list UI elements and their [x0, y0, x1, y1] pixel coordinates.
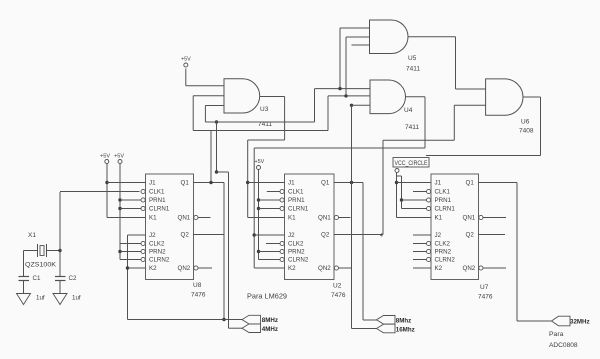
wire 16MHz horizontal — [352, 328, 378, 330]
svg-text:U6: U6 — [521, 119, 530, 126]
svg-text:U2: U2 — [333, 283, 342, 290]
wire J1 of U8 — [107, 182, 146, 184]
svg-text:Q2: Q2 — [466, 232, 475, 239]
svg-text:PRN2: PRN2 — [435, 249, 452, 256]
crystal X1 right plate — [46, 244, 48, 257]
net label VCC_CIRCLE box — [393, 158, 429, 168]
wire U5 output down — [455, 37, 457, 89]
wire Q2 of U8 — [194, 234, 225, 236]
node U4 input2 junction — [344, 94, 347, 97]
svg-text:ADC0808: ADC0808 — [549, 342, 578, 349]
svg-text:Q1: Q1 — [321, 180, 330, 187]
wire U5 input2 — [346, 36, 370, 38]
wire J2 of U8 — [128, 234, 146, 236]
flip-flop U8 7476 body — [146, 174, 194, 280]
svg-text:U4: U4 — [404, 107, 413, 114]
wire K1 of U8 — [107, 217, 146, 219]
wire U3 output to U2 J-K rail — [248, 139, 285, 141]
wire QN2 stub U8 — [198, 267, 212, 269]
wire QN1 stub U2 — [339, 217, 351, 219]
wire VCC rail2 stub — [397, 175, 402, 177]
wire U5-U4 input1 vertical — [339, 28, 341, 89]
wire J1 of U7 — [397, 182, 432, 184]
AND gate U4 7411 — [370, 80, 406, 114]
svg-text:32MHz: 32MHz — [570, 319, 590, 326]
svg-text:QN2: QN2 — [178, 265, 191, 272]
svg-text:+5V: +5V — [181, 57, 191, 63]
wire U6 input2 up — [453, 105, 455, 140]
wire U4 output — [406, 96, 426, 98]
capacitor C2 bottom plate — [55, 280, 66, 282]
svg-text:QN2: QN2 — [463, 265, 476, 272]
U8 inverted output bubble — [194, 266, 198, 270]
svg-text:QN2: QN2 — [318, 265, 331, 272]
U8 inverted output bubble — [194, 215, 198, 219]
VCC_CIRCLE terminal circle — [395, 169, 399, 173]
flip-flop U7 7476 body — [431, 174, 479, 280]
U2 active-low input bubble — [280, 189, 284, 193]
power +5V terminal (U2) — [257, 166, 261, 170]
wire crystal left down to C1 — [23, 251, 25, 277]
AND gate U6 7408 — [486, 79, 523, 115]
svg-text:QN1: QN1 — [318, 215, 331, 222]
wire J2K2 rail of U2 — [253, 148, 255, 268]
node Q1 U2 junction — [350, 181, 353, 184]
wire CLRN2 of U8 — [120, 259, 141, 261]
output terminal 32MHz (ADC0808) — [552, 316, 571, 326]
capacitor C2 top plate — [55, 276, 66, 278]
wire U3 input2 vertical — [192, 96, 194, 131]
wire J2 of U2 — [254, 234, 284, 236]
node rail A / J1 junction — [105, 181, 108, 184]
wire U3 output — [260, 96, 285, 98]
svg-text:8MHz: 8MHz — [262, 317, 278, 324]
wire U3 input1 — [186, 85, 224, 87]
node U4 input1 junction — [338, 87, 341, 90]
svg-text:+5V: +5V — [255, 159, 265, 165]
svg-text:J2: J2 — [435, 232, 442, 239]
wire PRN2 of U2 — [259, 251, 281, 253]
wire 4MHz vertical — [228, 172, 230, 328]
wire oscillator node vertical — [59, 192, 61, 276]
wire K1 of U7 — [397, 217, 432, 219]
svg-text:4MHz: 4MHz — [262, 326, 278, 333]
node rail / J1 U2 junction — [246, 181, 249, 184]
U2 active-low input bubble — [280, 198, 284, 202]
node rail / PRN2 U2 — [257, 250, 260, 253]
svg-text:CLK2: CLK2 — [149, 241, 165, 248]
U2 inverted output bubble — [334, 215, 338, 219]
node rail / J1 U7 — [395, 181, 398, 184]
wire +5V rail of U2 — [258, 170, 260, 260]
wire K2 of U8 — [128, 267, 146, 269]
svg-text:CLRN2: CLRN2 — [435, 257, 456, 264]
wire +5V down to U3 input1 — [185, 69, 187, 86]
wire feedback tap vertical — [216, 122, 218, 172]
node rail B / CLRN1 junction — [118, 207, 121, 210]
wire +5V rail B of U8 (PRN/CLRN) — [119, 164, 121, 260]
wire VCC rail2 U7 (PRN/CLRN) — [401, 176, 403, 209]
svg-text:Q2: Q2 — [321, 232, 330, 239]
svg-text:PRN1: PRN1 — [149, 197, 166, 204]
svg-text:J2: J2 — [288, 232, 295, 239]
svg-text:Q1: Q1 — [466, 180, 475, 187]
U7 inverted output bubble — [479, 215, 483, 219]
wire U3 input2 — [193, 95, 224, 97]
wire U4 input3 — [352, 104, 371, 106]
wire K1 of U2 — [248, 217, 285, 219]
svg-text:C2: C2 — [69, 275, 77, 282]
wire CLK2 stub U2 — [266, 243, 280, 245]
svg-text:7476: 7476 — [331, 292, 346, 299]
svg-text:U5: U5 — [408, 55, 417, 62]
svg-text:CLRN2: CLRN2 — [288, 257, 309, 264]
svg-text:PRN1: PRN1 — [288, 197, 305, 204]
node feedback tap upper — [215, 120, 218, 123]
node rail B / PRN1 junction — [118, 198, 121, 201]
wire CLK1 stub U7 — [413, 191, 427, 193]
svg-text:Q1: Q1 — [181, 180, 190, 187]
wire Q2 feed vertical x=383 — [382, 140, 384, 234]
wire U5 input1 — [340, 27, 370, 29]
svg-text:CLRN1: CLRN1 — [435, 206, 456, 213]
svg-text:CLK1: CLK1 — [149, 189, 165, 196]
svg-text:X1: X1 — [28, 232, 36, 239]
ground symbol under C2 — [53, 294, 67, 305]
wire K2 of U2 — [254, 267, 284, 269]
svg-text:4: 4 — [380, 233, 383, 239]
svg-text:K2: K2 — [149, 265, 157, 272]
svg-text:CLRN1: CLRN1 — [288, 206, 309, 213]
svg-text:J1: J1 — [288, 180, 295, 187]
wire CLRN2 stub U7 — [413, 259, 427, 261]
wire line A up to U4 input1 — [314, 89, 316, 122]
svg-text:K1: K1 — [149, 215, 157, 222]
svg-text:C1: C1 — [33, 275, 41, 282]
svg-text:Q2: Q2 — [181, 232, 190, 239]
svg-text:CLK2: CLK2 — [288, 241, 304, 248]
node rail / CLRN1 U2 — [257, 207, 260, 210]
svg-text:16Mhz: 16Mhz — [396, 327, 415, 334]
svg-text:CLRN1: CLRN1 — [149, 206, 170, 213]
U2 active-low input bubble — [280, 257, 284, 261]
wire J2K2 feed line (y=148) — [254, 147, 425, 149]
svg-text:QN1: QN1 — [463, 215, 476, 222]
U2 inverted output bubble — [334, 266, 338, 270]
ground symbol under C1 — [17, 294, 31, 305]
wire U3 input3 vertical — [204, 106, 206, 123]
wire U5 input3 — [352, 44, 370, 46]
node Q1 U8 / feedback junction — [209, 181, 212, 184]
wire Q1 U8 down to 8MHz output — [223, 183, 225, 320]
capacitor C1 top plate — [19, 276, 30, 278]
svg-text:1uf: 1uf — [36, 295, 45, 302]
svg-text:J2: J2 — [149, 232, 156, 239]
svg-text:U8: U8 — [193, 282, 202, 289]
node rail / PRN1 U2 — [257, 198, 260, 201]
node J2 U2 junction — [253, 233, 256, 236]
AND gate U5 7411 — [370, 20, 408, 54]
svg-text:CLK2: CLK2 — [435, 241, 451, 248]
wire 4MHz horizontal — [229, 327, 243, 329]
wire Q1 of U7 — [479, 182, 518, 184]
U8 active-low input bubble — [141, 241, 145, 245]
U7 active-low input bubble — [427, 198, 431, 202]
output terminal 16MHz — [377, 324, 396, 333]
wire U6 output — [523, 96, 541, 98]
U8 active-low input bubble — [141, 206, 145, 210]
wire PRN1 of U2 — [259, 199, 281, 201]
svg-text:K2: K2 — [288, 265, 296, 272]
wire CLK2 stub U7 — [413, 243, 427, 245]
svg-text:K2: K2 — [435, 265, 443, 272]
svg-text:7476: 7476 — [478, 294, 493, 301]
wire Q1 U2 / U4in3 vertical — [351, 105, 353, 328]
wire J1 of U2 — [248, 182, 285, 184]
wire line B up to U4 input2 — [327, 96, 329, 131]
U7 active-low input bubble — [427, 257, 431, 261]
wire C2 to ground — [59, 281, 61, 294]
wire Q2 of U2 to feedback — [334, 234, 383, 236]
wire U4 output down — [424, 97, 426, 148]
wire CLK1 stub U2 — [267, 191, 280, 193]
U7 active-low input bubble — [427, 189, 431, 193]
U8 active-low input bubble — [141, 257, 145, 261]
svg-text:8Mhz: 8Mhz — [396, 318, 411, 325]
wire crystal left lead — [24, 250, 38, 252]
svg-text:+5V: +5V — [100, 154, 110, 160]
output terminal 8MHz (LM629) — [242, 315, 261, 324]
wire PRN2 of U8 — [120, 251, 141, 253]
wire U6 input2 — [454, 104, 485, 106]
svg-text:PRN2: PRN2 — [149, 249, 166, 256]
svg-text:7411: 7411 — [406, 66, 420, 73]
node rail2 / PRN1 U7 — [400, 198, 403, 201]
wire U5-U4 input2 vertical — [345, 37, 347, 96]
power +5V terminal (U8 preset rail) — [118, 160, 122, 164]
wire U3 feedback down to Q1 U8 — [210, 131, 212, 183]
wire feedback line B (y=130.5) — [193, 130, 328, 132]
wire 8MHz output line — [128, 319, 243, 321]
U2 active-low input bubble — [280, 206, 284, 210]
wire U3out rail down (U2 J1-K1) — [247, 140, 249, 218]
wire 8MHz (U2) horizontal — [363, 319, 377, 321]
power +5V terminal (U3 input) — [184, 63, 188, 67]
svg-text:CLK1: CLK1 — [288, 189, 304, 196]
wire QN2 stub U2 — [339, 267, 352, 269]
wire QN1 stub U7 — [483, 217, 506, 219]
svg-text:+5V: +5V — [114, 154, 124, 160]
svg-text:CLK1: CLK1 — [435, 189, 451, 196]
wire crystal right lead — [47, 250, 61, 252]
svg-text:J1: J1 — [149, 180, 156, 187]
U8 active-low input bubble — [141, 249, 145, 253]
wire CLRN1 of U7 — [402, 208, 427, 210]
U7 active-low input bubble — [427, 249, 431, 253]
wire feedback line A (y=122) — [205, 121, 314, 123]
wire U6 input1 — [456, 88, 486, 90]
wire CLK2 of U8 — [120, 243, 141, 245]
svg-text:7411: 7411 — [405, 124, 419, 131]
node 8MHz line junction — [222, 318, 225, 321]
wire J2-K2 rail of U8 down to 8MHz line — [127, 235, 129, 320]
output terminal 8MHz (ADC chain) — [377, 316, 396, 325]
wire QN2 stub U7 — [483, 267, 506, 269]
wire U3 input3 — [205, 105, 224, 107]
wire 8MHz (U2) vertical — [362, 183, 364, 321]
node K2 junction U8 — [126, 266, 129, 269]
U7 inverted output bubble — [479, 266, 483, 270]
wire U5 output — [408, 36, 456, 38]
wire K2 stub U7 — [413, 267, 431, 269]
wire Q1 of U2 — [334, 182, 363, 184]
svg-text:K1: K1 — [288, 215, 296, 222]
svg-text:U7: U7 — [480, 284, 489, 291]
wire PRN1 of U7 — [402, 199, 427, 201]
wire CLRN1 of U8 — [120, 208, 141, 210]
wire CLRN2 of U2 — [259, 259, 281, 261]
wire U4 input2 — [328, 95, 370, 97]
node rail B / PRN2 junction — [118, 250, 121, 253]
svg-text:PRN1: PRN1 — [435, 197, 452, 204]
svg-text:CLRN2: CLRN2 — [149, 257, 170, 264]
power +5V terminal (U8 J/K rail) — [105, 160, 109, 164]
svg-text:U3: U3 — [260, 106, 269, 113]
svg-text:1uf: 1uf — [72, 295, 81, 302]
wire feedback tap horizontal — [217, 171, 229, 173]
crystal X1 left plate — [37, 244, 39, 257]
U2 active-low input bubble — [280, 241, 284, 245]
svg-text:PRN2: PRN2 — [288, 249, 305, 256]
wire PRN1 of U8 — [120, 199, 141, 201]
svg-text:7476: 7476 — [191, 292, 206, 299]
wire U3 output down — [284, 97, 286, 141]
svg-text:VCC_CIRCLE: VCC_CIRCLE — [395, 161, 428, 167]
svg-text:Para LM629: Para LM629 — [247, 292, 287, 301]
wire oscillator to CLK1 of U8 — [60, 191, 140, 193]
wire 32MHz horizontal — [517, 320, 552, 322]
wire U6 input2 channel (y=140) — [383, 139, 454, 141]
wire U6 output down — [540, 97, 542, 156]
wire J2 stub U7 — [413, 234, 431, 236]
node U4 input3 junction — [350, 104, 353, 107]
AND gate U3 7411 — [224, 79, 260, 113]
node crystal output junction — [58, 249, 61, 252]
svg-text:K1: K1 — [435, 215, 443, 222]
U2 active-low input bubble — [280, 249, 284, 253]
svg-text:QZS100K: QZS100K — [25, 262, 57, 269]
U8 active-low input bubble — [141, 198, 145, 202]
wire VCC_CIRCLE net — [426, 155, 541, 157]
U7 active-low input bubble — [427, 241, 431, 245]
crystal X1 body — [40, 246, 44, 256]
wire CLRN1 of U2 — [259, 208, 281, 210]
wire VCC rail U7 (J1-K1) — [396, 173, 398, 218]
svg-text:QN1: QN1 — [178, 215, 191, 222]
node feedback tap lower — [215, 170, 218, 173]
U7 active-low input bubble — [427, 206, 431, 210]
flip-flop U2 7476 body — [285, 174, 335, 280]
wire +5V rail A of U8 (J1-K1) — [106, 164, 108, 218]
wire PRN2 stub U7 — [413, 251, 427, 253]
wire U4 input1 — [315, 88, 371, 90]
wire Q1 of U8 — [194, 182, 225, 184]
capacitor C1 bottom plate — [19, 280, 30, 282]
wire QN1 stub U8 — [198, 217, 211, 219]
svg-text:J1: J1 — [435, 180, 442, 187]
output terminal 4MHz (LM629) — [242, 324, 261, 333]
wire Q1 U7 down to 32MHz — [516, 183, 518, 322]
svg-text:Para: Para — [549, 331, 564, 338]
svg-text:7408: 7408 — [519, 128, 534, 135]
U8 active-low input bubble — [141, 189, 145, 193]
wire C1 to ground — [23, 281, 25, 294]
wire Q2 stub U7 — [479, 234, 506, 236]
